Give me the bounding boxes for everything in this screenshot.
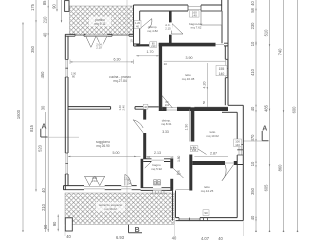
svg-text:2.15: 2.15 bbox=[165, 26, 171, 30]
svg-text:450: 450 bbox=[40, 71, 45, 79]
jamb ticks cucina top b bbox=[112, 34, 129, 36]
svg-text:mq.27.84: mq.27.84 bbox=[113, 79, 127, 83]
svg-text:510: 510 bbox=[263, 29, 268, 37]
dimension line right 1 bbox=[255, 0, 257, 232]
svg-text:40: 40 bbox=[250, 1, 255, 6]
svg-text:1.20: 1.20 bbox=[135, 21, 141, 25]
dot R1 end bbox=[255, 231, 257, 233]
arrow R2 y110 bbox=[269, 109, 270, 111]
svg-text:2.87: 2.87 bbox=[210, 151, 217, 155]
svg-text:4.20: 4.20 bbox=[203, 82, 207, 89]
arrow L4 b bbox=[48, 5, 49, 7]
fixture bidet bagno bbox=[158, 180, 161, 185]
jamb ticks cucina top a bbox=[75, 34, 84, 36]
arrow R1 y112 bbox=[255, 110, 256, 112]
wall letto10-letto14 divider outer bbox=[192, 164, 243, 166]
door swing letto14 bbox=[222, 165, 234, 181]
svg-text:mq.16.38: mq.16.38 bbox=[182, 77, 195, 81]
label box door disimp8 (80/210) bbox=[190, 145, 198, 152]
svg-text:140: 140 bbox=[219, 72, 225, 76]
pillar top-left bbox=[65, 1, 69, 12]
dimension line left outer (1600/350) bbox=[22, 23, 24, 233]
arrow dim 630 l bbox=[70, 61, 72, 62]
svg-text:520: 520 bbox=[37, 144, 42, 152]
label box window letto10 (100/140) bbox=[234, 139, 242, 147]
window letto14 bottom thin lines bbox=[179, 218, 200, 220]
threshold corridor terrace door bbox=[176, 188, 190, 190]
wall soggiorno bottom inner bbox=[64, 185, 137, 187]
room label letto 10.62 bbox=[206, 130, 219, 138]
room label disimp 8.31 bbox=[161, 119, 172, 134]
dimension line right 4 bbox=[297, 0, 299, 232]
door swing soggiorno right bbox=[133, 120, 143, 133]
fixture wc bagno bbox=[154, 180, 161, 185]
section marker A left bbox=[41, 129, 79, 137]
arrow R1 y141 bbox=[255, 139, 256, 141]
wall chimney left edge bbox=[221, 0, 223, 11]
wall left inner (x68) bbox=[67, 36, 69, 185]
window left wall upper thin lines bbox=[66, 60, 68, 78]
svg-text:370: 370 bbox=[250, 134, 255, 142]
wall filled between disimp and bagno-lav bbox=[169, 11, 172, 22]
svg-text:155: 155 bbox=[219, 67, 225, 71]
window soggiorno bottom thin a bbox=[84, 186, 105, 189]
dim line 5.00 soggiorno bbox=[68, 155, 141, 157]
door swing disimp8 to letto10 bbox=[193, 146, 207, 155]
wall bagno top segs bbox=[143, 159, 173, 162]
wall spine left outer (x133.5) bbox=[133, 5, 135, 34]
arrow L4 bottom bbox=[48, 229, 49, 231]
arrow R1 y161 bbox=[255, 161, 256, 163]
jamb ticks left wall win2 bbox=[65, 153, 68, 174]
extension line bottom a bbox=[173, 225, 175, 236]
svg-text:210: 210 bbox=[177, 173, 182, 176]
room label soggiorno bbox=[96, 140, 110, 148]
wall letto16 right inner (x225.3) bbox=[224, 46, 226, 105]
jamb ticks window top wall bbox=[188, 5, 201, 11]
window letto10 right thin lines bbox=[239, 145, 241, 155]
dimension stub left top 2 bbox=[61, 0, 63, 22]
room label cucina-pranzo bbox=[109, 75, 131, 83]
wall cucina top outer segs bbox=[65, 33, 133, 35]
threshold bagno top door bbox=[152, 159, 165, 161]
svg-text:6.30: 6.30 bbox=[114, 57, 121, 61]
door swing corridor-bagno bbox=[173, 168, 183, 178]
threshold letto14 door bbox=[225, 162, 234, 164]
room label bagno-lav bbox=[189, 22, 203, 30]
svg-text:40: 40 bbox=[136, 25, 139, 29]
dim line 4.20 letto16 vertical bbox=[206, 63, 208, 107]
label A.C. near bagno-lav door bbox=[164, 23, 172, 31]
wall soggiorno bottom left cap bbox=[63, 186, 65, 190]
wall filled bagno left bbox=[141, 159, 144, 188]
wall soggiorno top inner segs bbox=[68, 106, 159, 108]
svg-text:3.33: 3.33 bbox=[162, 130, 169, 134]
arrow dim 170 r bbox=[157, 55, 159, 56]
svg-text:10: 10 bbox=[164, 62, 168, 66]
dim label bg portico door bbox=[95, 43, 104, 50]
dim line 6.30 under portico bbox=[70, 61, 134, 63]
wall right upper window break bbox=[225, 59, 228, 77]
wall letto10-letto14 divider fill bbox=[192, 162, 237, 164]
fixture shower box bagno-lav bbox=[201, 11, 222, 25]
arrow R2 y46 bbox=[269, 44, 270, 46]
wall filled spine mid (x158.8-162.1) bbox=[159, 43, 162, 110]
arrow L4 a bbox=[48, 34, 49, 36]
svg-text:815: 815 bbox=[29, 124, 34, 132]
dim line 3.90 extension ticks bbox=[70, 60, 134, 65]
svg-text:mq.8.31: mq.8.31 bbox=[161, 122, 172, 126]
threshold bagno terrace door bbox=[153, 188, 162, 190]
wall letto14 bottom inner bbox=[176, 217, 238, 219]
svg-text:50: 50 bbox=[202, 101, 206, 105]
svg-text:350: 350 bbox=[250, 187, 255, 195]
door triangle soggiorno-terrace right bbox=[95, 176, 105, 185]
svg-text:10: 10 bbox=[250, 161, 255, 166]
wall filled corridor left (bagno right) upper bbox=[170, 159, 173, 169]
window top wall thin lines bbox=[188, 6, 201, 9]
arrow stub bottom b bbox=[58, 229, 59, 231]
svg-text:410: 410 bbox=[250, 68, 255, 76]
jamb ticks letto14 window bbox=[179, 218, 200, 221]
svg-text:860: 860 bbox=[277, 164, 282, 172]
arrow R1 y167 bbox=[255, 165, 256, 167]
wall cucina top inner segs bbox=[65, 35, 133, 37]
svg-text:80: 80 bbox=[72, 74, 75, 78]
svg-text:40: 40 bbox=[66, 234, 71, 239]
wall letto14 left outer bbox=[172, 191, 174, 221]
arrow dim 630 r bbox=[131, 61, 133, 62]
wall soggiorno bottom outer bbox=[64, 189, 141, 191]
wall spine left inner (x139.7) bbox=[139, 11, 141, 44]
vent ticks letto14 wall bbox=[204, 218, 208, 221]
window letto16 right thin lines bbox=[226, 59, 228, 77]
wall bagno-lav bottom outer bbox=[159, 45, 228, 47]
window left wall lower thin lines bbox=[66, 153, 68, 174]
svg-text:A: A bbox=[262, 125, 267, 132]
arrow L1 top bbox=[22, 22, 23, 24]
wall spine lower cap bbox=[134, 34, 140, 46]
dimension line right 3 bbox=[283, 0, 285, 232]
wall bagno-lav bottom upper line bbox=[159, 42, 228, 44]
arrow R1 y105 bbox=[255, 104, 256, 106]
svg-text:10: 10 bbox=[170, 155, 174, 159]
svg-text:194: 194 bbox=[127, 182, 132, 185]
svg-text:10: 10 bbox=[129, 39, 133, 43]
wall bagno bottom outer bbox=[141, 189, 173, 191]
window cucina top thin lines a bbox=[75, 34, 84, 37]
arrow dim 500 r bbox=[134, 156, 136, 157]
room label letto 14.25 bbox=[201, 185, 214, 193]
threshold letto16 door bbox=[167, 108, 178, 110]
svg-text:740: 740 bbox=[277, 48, 282, 56]
wall right lower outer (x243.3) bbox=[242, 105, 244, 220]
dot R4 end bbox=[297, 231, 299, 233]
svg-text:90: 90 bbox=[52, 221, 57, 226]
svg-text:mq 4.82: mq 4.82 bbox=[147, 29, 158, 33]
svg-text:6.93: 6.93 bbox=[116, 235, 125, 240]
svg-text:40: 40 bbox=[218, 236, 223, 240]
wall step top bbox=[228, 104, 243, 106]
wall letto14 bottom outer bbox=[176, 220, 244, 222]
wall filled corridor right bbox=[189, 155, 192, 191]
door triangle portico left bbox=[86, 36, 96, 47]
door triangle soggiorno-terrace left bbox=[85, 176, 95, 185]
room label terrazzo scoperto bbox=[96, 202, 125, 212]
extension line bottom b bbox=[242, 222, 244, 237]
dimension stub left bottom (90) bbox=[57, 215, 59, 232]
wall letto10-letto14 divider inner bbox=[192, 161, 237, 163]
svg-text:2.13: 2.13 bbox=[154, 151, 161, 155]
svg-text:50: 50 bbox=[43, 224, 48, 229]
svg-text:mq 9.11: mq 9.11 bbox=[94, 22, 106, 26]
svg-text:58: 58 bbox=[250, 8, 255, 13]
label box spine (1.20/40) bbox=[134, 21, 141, 29]
wall filled soggiorno right upper bbox=[143, 107, 146, 120]
dim line 3.90 letto16 bbox=[164, 60, 226, 62]
svg-text:mq 7.62: mq 7.62 bbox=[191, 26, 202, 30]
label box window top (160/140) bbox=[190, 11, 200, 18]
wall letto16 bottom outer bbox=[159, 110, 228, 112]
svg-text:140: 140 bbox=[235, 143, 240, 147]
wall top outer (right section) bbox=[134, 4, 222, 6]
arrow stub top2 bbox=[61, 20, 62, 22]
section line B-B vertical bbox=[127, 0, 142, 233]
svg-text:210: 210 bbox=[41, 203, 46, 211]
wall top inner bbox=[140, 10, 222, 12]
svg-text:175: 175 bbox=[30, 3, 35, 11]
arrow R2 y166 bbox=[269, 164, 270, 166]
dim line 2.13 bagno bbox=[146, 155, 170, 157]
svg-text:140: 140 bbox=[192, 14, 197, 18]
dim line 2.87 letto10 bbox=[194, 156, 228, 158]
svg-text:2.40: 2.40 bbox=[121, 105, 125, 111]
svg-text:485: 485 bbox=[263, 104, 268, 112]
svg-text:40: 40 bbox=[172, 235, 177, 240]
svg-text:2.10: 2.10 bbox=[96, 46, 102, 50]
svg-text:350: 350 bbox=[30, 45, 35, 53]
svg-text:5.00: 5.00 bbox=[113, 151, 120, 155]
jamb ticks left wall win1 bbox=[65, 60, 68, 78]
dim line 1.70 disimp opening bbox=[136, 55, 159, 57]
svg-text:1.80: 1.80 bbox=[177, 155, 181, 161]
jamb ticks letto16 window bbox=[225, 68, 228, 70]
dimension line left 4 (210/40/450...) bbox=[47, 0, 49, 232]
svg-text:mq 39.22: mq 39.22 bbox=[104, 207, 117, 211]
arrow R1 y217 bbox=[255, 216, 256, 218]
svg-text:10: 10 bbox=[250, 41, 255, 46]
hatch terrazzo scoperto (bottom terrace) bbox=[65, 193, 174, 224]
svg-text:210: 210 bbox=[151, 45, 156, 48]
label box window letto16 (155/140) bbox=[216, 66, 227, 76]
svg-text:90: 90 bbox=[51, 4, 56, 9]
svg-text:4.07: 4.07 bbox=[201, 236, 210, 240]
svg-text:mq 26.90: mq 26.90 bbox=[96, 144, 110, 148]
wall filled letto10 left bbox=[191, 107, 195, 141]
wall right lower inner (x240.3) bbox=[236, 112, 238, 217]
arrow dim 170 l bbox=[136, 55, 138, 56]
hatch portico (top-left crosshatched porch) bbox=[70, 6, 134, 35]
svg-text:B: B bbox=[135, 227, 140, 234]
wall filled between disimp and bagno-lav lower bbox=[169, 35, 172, 44]
room label bagno bbox=[151, 163, 162, 171]
door leaf soggiorno terrace bbox=[125, 174, 131, 185]
svg-text:40: 40 bbox=[250, 215, 255, 220]
svg-text:40: 40 bbox=[250, 106, 255, 111]
dimension stub left top (90 pillar) bbox=[56, 0, 58, 11]
svg-text:605: 605 bbox=[263, 184, 268, 192]
door swing disimp top bbox=[140, 19, 152, 29]
wall disimp bottom piece bbox=[136, 44, 149, 46]
wall soggiorno top outer segs bbox=[68, 107, 143, 110]
svg-text:1600: 1600 bbox=[16, 109, 21, 119]
wall letto16 bottom inner line bbox=[162, 106, 228, 108]
door swing bagno top bbox=[145, 162, 152, 169]
jamb ticks letto10 window bbox=[237, 145, 243, 155]
svg-text:3.90: 3.90 bbox=[186, 56, 193, 60]
arrow R3 y112 bbox=[283, 110, 284, 112]
wall right upper (x228) bbox=[227, 0, 229, 105]
steps outside bagno terrace door bbox=[150, 191, 168, 193]
dimension line left 2 (175/815) bbox=[35, 0, 37, 192]
pillar bottom-left of terrace bbox=[65, 218, 72, 231]
arrow R1 y45 bbox=[255, 44, 256, 46]
svg-text:mq.14.25: mq.14.25 bbox=[201, 189, 214, 193]
wall filled corridor left (bagno right) lower bbox=[170, 179, 173, 191]
arrow R1 y11 bbox=[255, 9, 256, 11]
svg-text:600: 600 bbox=[291, 106, 296, 114]
svg-text:1.70: 1.70 bbox=[147, 50, 154, 54]
arrow stub bottom a bbox=[58, 215, 59, 217]
window soggiorno bottom thin b bbox=[121, 186, 131, 189]
svg-text:A: A bbox=[41, 123, 46, 130]
room label letto 16.38 bbox=[182, 73, 195, 81]
svg-text:210: 210 bbox=[42, 16, 47, 24]
room label disimp 4.82 bbox=[147, 25, 158, 33]
svg-text:mq 5.92: mq 5.92 bbox=[151, 167, 162, 171]
wall left outer (x65.3) bbox=[64, 34, 66, 189]
wall filled soggiorno right lower bbox=[143, 133, 146, 159]
label box disimp door (80/210) bbox=[150, 42, 157, 48]
extension line bottom c bbox=[64, 226, 66, 237]
svg-text:3.10: 3.10 bbox=[190, 147, 196, 151]
threshold bagno-lav door bbox=[216, 44, 225, 46]
wall bagno-lav bottom fill bbox=[159, 43, 216, 45]
svg-text:mq 10.62: mq 10.62 bbox=[206, 134, 219, 138]
door triangle bagno-lav bbox=[172, 24, 184, 34]
wall letto14 left inner bbox=[175, 191, 177, 218]
door triangle portico right bbox=[96, 36, 106, 47]
threshold portico door bbox=[86, 34, 108, 36]
svg-text:90: 90 bbox=[204, 211, 208, 215]
dimension line left 3 (520) bbox=[44, 112, 46, 232]
window cucina top thin lines b bbox=[112, 34, 129, 37]
arrow dim 500 l bbox=[68, 156, 70, 157]
wall bagno-lav inner right face bbox=[221, 11, 223, 43]
svg-text:2.10: 2.10 bbox=[92, 179, 98, 183]
dot R2 end bbox=[269, 231, 271, 233]
arrow R1 y41 bbox=[255, 41, 256, 43]
wall step inner bbox=[222, 111, 237, 113]
arrow stub top bbox=[56, 9, 57, 11]
label box window letto14 (90) bbox=[203, 210, 209, 216]
door swing letto16 lower left bbox=[162, 96, 173, 109]
dot R3 end bbox=[283, 231, 285, 233]
svg-text:85: 85 bbox=[42, 0, 47, 5]
arrow L2 bottom bbox=[35, 189, 36, 191]
svg-text:40: 40 bbox=[41, 188, 46, 193]
svg-text:30: 30 bbox=[40, 105, 45, 110]
arrow R1 y221 bbox=[255, 219, 256, 221]
wall letto16 bottom fill bbox=[162, 108, 228, 111]
arrow L2 bbox=[35, 20, 36, 22]
svg-text:230: 230 bbox=[250, 22, 255, 30]
section marker A right bbox=[244, 131, 269, 141]
svg-text:210: 210 bbox=[165, 103, 170, 107]
svg-text:10: 10 bbox=[147, 155, 151, 159]
label box soggiorno wall (40) bbox=[143, 104, 148, 109]
room label portico bbox=[89, 17, 111, 27]
dimension line right 2 bbox=[269, 0, 271, 232]
arrow dim 420 bbox=[207, 87, 208, 89]
arrow L1 bottom bbox=[22, 230, 23, 232]
dim line 1.90 disimp8 vertical bbox=[189, 109, 191, 141]
wall bagno bottom inner bbox=[141, 187, 171, 189]
svg-text:40: 40 bbox=[42, 32, 47, 37]
svg-text:1.90: 1.90 bbox=[185, 124, 189, 131]
